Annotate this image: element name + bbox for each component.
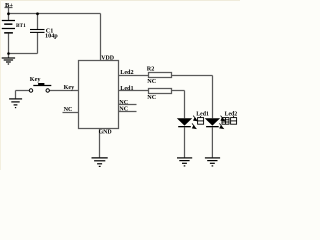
svg-text:Led2: Led2 [225, 112, 238, 118]
svg-text:BT1: BT1 [16, 23, 26, 29]
svg-text:GND: GND [99, 130, 112, 136]
svg-text:NC: NC [64, 106, 73, 113]
svg-text:B+: B+ [5, 2, 13, 9]
svg-text:VDD: VDD [101, 55, 114, 61]
svg-text:R2: R2 [147, 66, 155, 73]
svg-text:Led1: Led1 [120, 85, 133, 92]
svg-text:Led1: Led1 [196, 112, 209, 118]
svg-text:NC: NC [147, 78, 156, 85]
svg-text:NC: NC [119, 105, 128, 112]
svg-text:Key: Key [30, 76, 42, 83]
svg-text:Key: Key [64, 84, 76, 91]
svg-text:Led2: Led2 [120, 69, 133, 76]
svg-text:104p: 104p [45, 32, 58, 39]
svg-text:NC: NC [147, 94, 156, 101]
